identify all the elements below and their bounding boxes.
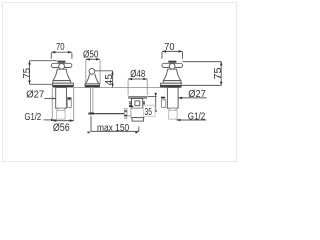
lever connector (129, 106, 133, 108)
horizontal rod (94, 113, 124, 115)
dim 45 line (112, 71, 114, 88)
handle hub right (169, 63, 175, 69)
waste lower nut (131, 108, 144, 117)
dim 45 ext line (95, 70, 113, 72)
side outlet stub left (67, 97, 71, 99)
bell collar right (167, 70, 178, 72)
waste thread ribs left (129, 101, 131, 102)
dim O48 ext lines (127, 80, 129, 96)
dim O50 ext lines (85, 60, 87, 84)
svg-text:max 150: max 150 (97, 123, 130, 134)
handle hub left (59, 63, 65, 69)
svg-text:Ø48: Ø48 (130, 69, 145, 80)
svg-text:70: 70 (56, 42, 65, 53)
bell body left (53, 69, 70, 80)
dim O56 ext lines (51, 88, 53, 120)
svg-text:70: 70 (164, 42, 175, 53)
handle top disc left (57, 61, 65, 63)
dim 70 line left (51, 51, 72, 53)
clevis (125, 108, 128, 110)
dim 70 ext lines right (161, 52, 163, 59)
step piece left (58, 108, 65, 110)
svg-text:75: 75 (22, 68, 33, 79)
dim G1/2 right leader (176, 119, 206, 121)
spout base dark band (85, 86, 100, 88)
svg-text:G1/2: G1/2 (25, 112, 42, 123)
spout base (85, 84, 100, 86)
handle bar right (162, 63, 183, 67)
spout ball (89, 68, 95, 74)
shank right (167, 87, 178, 108)
bell collar left (56, 70, 67, 72)
skirt ring left (53, 81, 71, 84)
handle top disc right (168, 61, 176, 63)
shank left (56, 87, 67, 108)
svg-text:G1/2: G1/2 (188, 111, 206, 122)
tail thread right (169, 110, 178, 119)
mounting line (73, 86, 182, 88)
dim max150 left ref (90, 116, 92, 131)
pop-up rod stem (91, 88, 93, 113)
svg-text:35: 35 (145, 107, 153, 118)
dim max150 right ref (138, 126, 140, 131)
spout bell (85, 74, 99, 84)
svg-text:Ø56: Ø56 (53, 122, 70, 134)
bell body right (163, 69, 180, 80)
dim 35 line (155, 97, 157, 109)
dim 70 arrows left (51, 51, 55, 54)
base plate right (160, 83, 181, 85)
waste body (132, 99, 143, 109)
dim max150 line (91, 130, 139, 132)
dim 35 ext line (148, 96, 157, 98)
waste inner square (135, 101, 140, 106)
base dark band right (160, 85, 181, 87)
svg-text:75: 75 (213, 67, 224, 80)
waste tailpiece (132, 118, 144, 122)
handle bar left (51, 63, 72, 67)
dim O50 line (86, 58, 100, 60)
dim 75 right lines (183, 61, 222, 63)
step piece right (169, 108, 176, 110)
35 label box (143, 105, 155, 116)
side box right (161, 100, 165, 108)
frame border (3, 3, 237, 162)
lever link line (127, 115, 131, 117)
dim 75 arrows right (220, 62, 223, 66)
side outlet stub right (161, 97, 165, 99)
dim 75 left lines (30, 60, 57, 62)
svg-text:Ø27: Ø27 (188, 89, 206, 100)
side box left (67, 100, 71, 108)
svg-text:Ø27: Ø27 (26, 89, 44, 100)
dim O48 line (128, 78, 147, 80)
svg-text:45: 45 (104, 74, 115, 86)
waste thread ribs right (143, 101, 145, 102)
dim 70 ext lines left (50, 53, 52, 59)
dim O27 right leader (178, 97, 207, 99)
dim G1/2 left leader (44, 119, 55, 121)
svg-text:Ø50: Ø50 (83, 50, 99, 61)
waste flange (128, 96, 147, 98)
base dark band left (52, 85, 73, 87)
dim O56 line (52, 120, 73, 122)
dim 70 line right (162, 50, 183, 52)
dim O27 left leader (44, 98, 55, 100)
dim 75 arrows left (28, 61, 31, 65)
rod end fitting (88, 113, 94, 115)
tail thread left (57, 110, 66, 119)
skirt ring right (163, 81, 181, 84)
base plate left (53, 83, 74, 85)
dim 70 arrows right (162, 50, 166, 53)
